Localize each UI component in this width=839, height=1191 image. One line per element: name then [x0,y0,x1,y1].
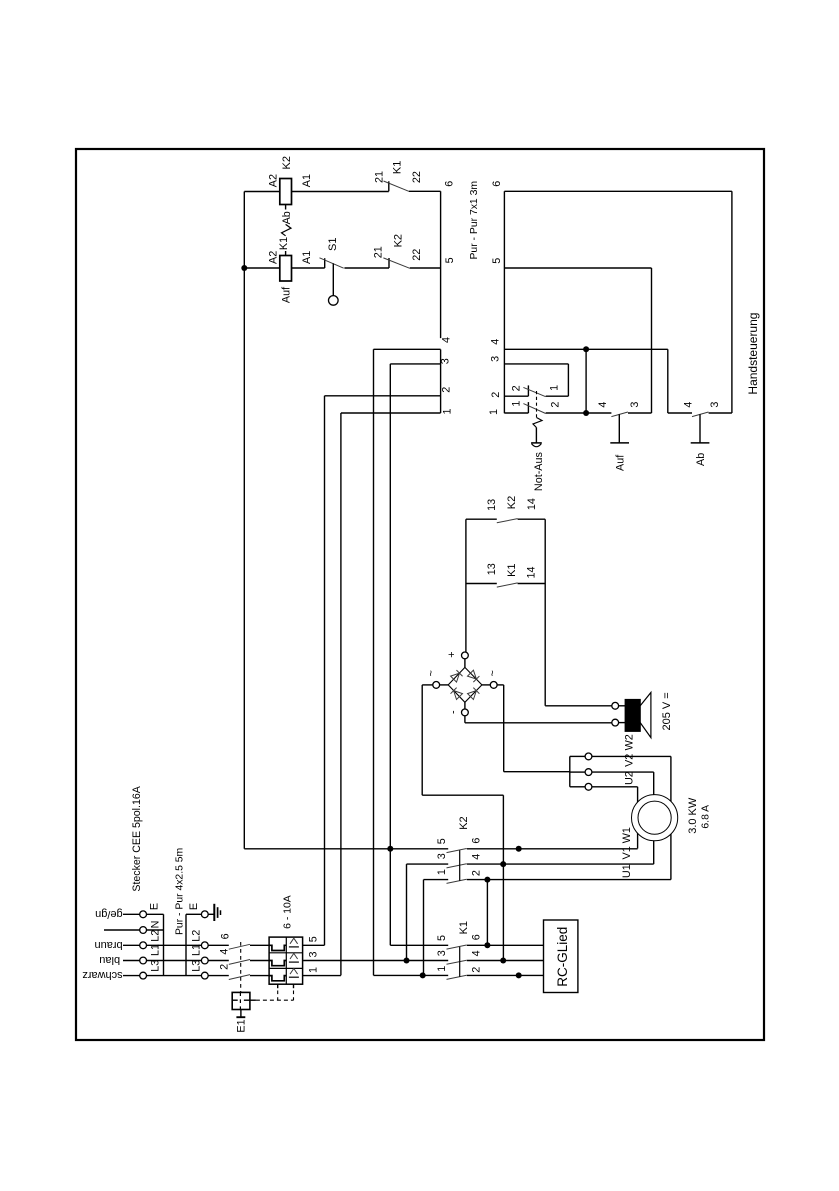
svg-text:Stecker CEE 5pol.16A: Stecker CEE 5pol.16A [131,785,143,891]
svg-text:3: 3 [436,853,448,859]
svg-text:14: 14 [525,566,537,578]
svg-text:S1: S1 [327,238,339,251]
svg-text:A1: A1 [301,174,313,187]
svg-text:1: 1 [436,869,448,875]
svg-text:3: 3 [439,358,451,364]
svg-text:4: 4 [219,949,231,955]
svg-text:5: 5 [491,258,503,264]
svg-text:Ab: Ab [281,211,293,224]
svg-text:~: ~ [487,670,499,676]
svg-text:1: 1 [307,967,319,973]
svg-text:E1: E1 [235,1019,247,1032]
svg-text:2: 2 [490,392,502,398]
svg-text:5: 5 [436,935,448,941]
svg-text:L1: L1 [190,944,202,956]
svg-text:1: 1 [436,966,448,972]
svg-text:blau: blau [99,954,120,966]
svg-text:4: 4 [489,339,501,345]
svg-text:4: 4 [597,402,609,408]
svg-text:Pur - Pur 7x1 3m: Pur - Pur 7x1 3m [469,181,480,260]
svg-text:2: 2 [441,387,453,393]
svg-text:6: 6 [470,934,482,940]
svg-text:4: 4 [470,950,482,956]
svg-text:U1: U1 [621,864,633,878]
svg-text:E: E [149,903,161,910]
svg-text:K1: K1 [458,921,470,934]
svg-text:V2: V2 [623,754,635,767]
svg-text:A1: A1 [301,251,313,264]
svg-text:K1: K1 [506,563,518,576]
svg-text:L3: L3 [190,960,202,972]
svg-text:6: 6 [491,181,503,187]
svg-text:N: N [150,921,162,929]
svg-text:22: 22 [411,249,423,261]
svg-text:A2: A2 [268,174,280,187]
svg-text:5: 5 [444,257,456,263]
svg-text:Auf: Auf [280,286,292,303]
svg-text:ge/gn: ge/gn [95,908,123,920]
svg-text:14: 14 [526,498,538,510]
svg-text:6 - 10A: 6 - 10A [283,895,294,929]
svg-text:2: 2 [219,964,231,970]
svg-text:L2: L2 [150,930,162,942]
svg-text:Auf: Auf [615,454,627,471]
svg-text:braun: braun [94,939,122,951]
svg-text:21: 21 [374,171,386,183]
svg-text:2: 2 [470,870,482,876]
svg-text:4: 4 [441,337,453,343]
svg-text:W1: W1 [621,827,633,843]
svg-text:6.8 A: 6.8 A [700,805,711,829]
svg-text:3: 3 [629,402,641,408]
svg-text:E: E [188,903,200,910]
svg-text:4: 4 [683,402,695,408]
svg-text:A2: A2 [268,251,280,264]
svg-text:3: 3 [709,402,721,408]
svg-text:RC-GLied: RC-GLied [555,927,570,987]
svg-text:schwarz: schwarz [82,969,122,981]
svg-text:-: - [448,710,460,714]
svg-text:V1: V1 [621,846,633,859]
svg-text:1: 1 [442,408,454,414]
svg-text:13: 13 [486,563,498,575]
svg-text:K2: K2 [281,156,293,169]
svg-text:U2: U2 [623,771,635,785]
svg-text:6: 6 [470,838,482,844]
svg-text:2: 2 [470,967,482,973]
svg-text:3.0 KW: 3.0 KW [687,797,699,834]
svg-text:6: 6 [220,933,232,939]
svg-text:205 V =: 205 V = [661,692,673,730]
svg-text:K1: K1 [278,237,290,250]
svg-text:1: 1 [510,401,522,407]
svg-text:21: 21 [373,246,385,258]
svg-text:K2: K2 [506,496,518,509]
svg-text:4: 4 [470,854,482,860]
svg-text:2: 2 [510,385,522,391]
svg-text:+: + [446,651,458,657]
svg-text:1: 1 [548,385,560,391]
svg-text:1: 1 [488,409,500,415]
svg-text:Pur - Pur 4x2.5 5m: Pur - Pur 4x2.5 5m [174,848,185,935]
svg-text:3: 3 [307,951,319,957]
svg-text:K1: K1 [392,161,404,174]
svg-text:22: 22 [411,171,423,183]
svg-text:W2: W2 [623,734,635,750]
svg-text:3: 3 [436,950,448,956]
svg-text:2: 2 [549,402,561,408]
svg-text:Ab: Ab [695,453,707,466]
svg-text:K2: K2 [392,234,404,247]
svg-text:~: ~ [425,670,437,676]
svg-text:K2: K2 [458,816,470,829]
svg-text:L2: L2 [190,930,202,942]
svg-text:3: 3 [489,356,501,362]
svg-text:Handsteuerung: Handsteuerung [746,313,760,395]
svg-text:13: 13 [486,499,498,511]
svg-text:5: 5 [307,936,319,942]
svg-text:5: 5 [436,838,448,844]
svg-text:L3: L3 [150,960,162,972]
svg-text:Not-Aus: Not-Aus [533,451,545,491]
svg-text:6: 6 [443,181,455,187]
